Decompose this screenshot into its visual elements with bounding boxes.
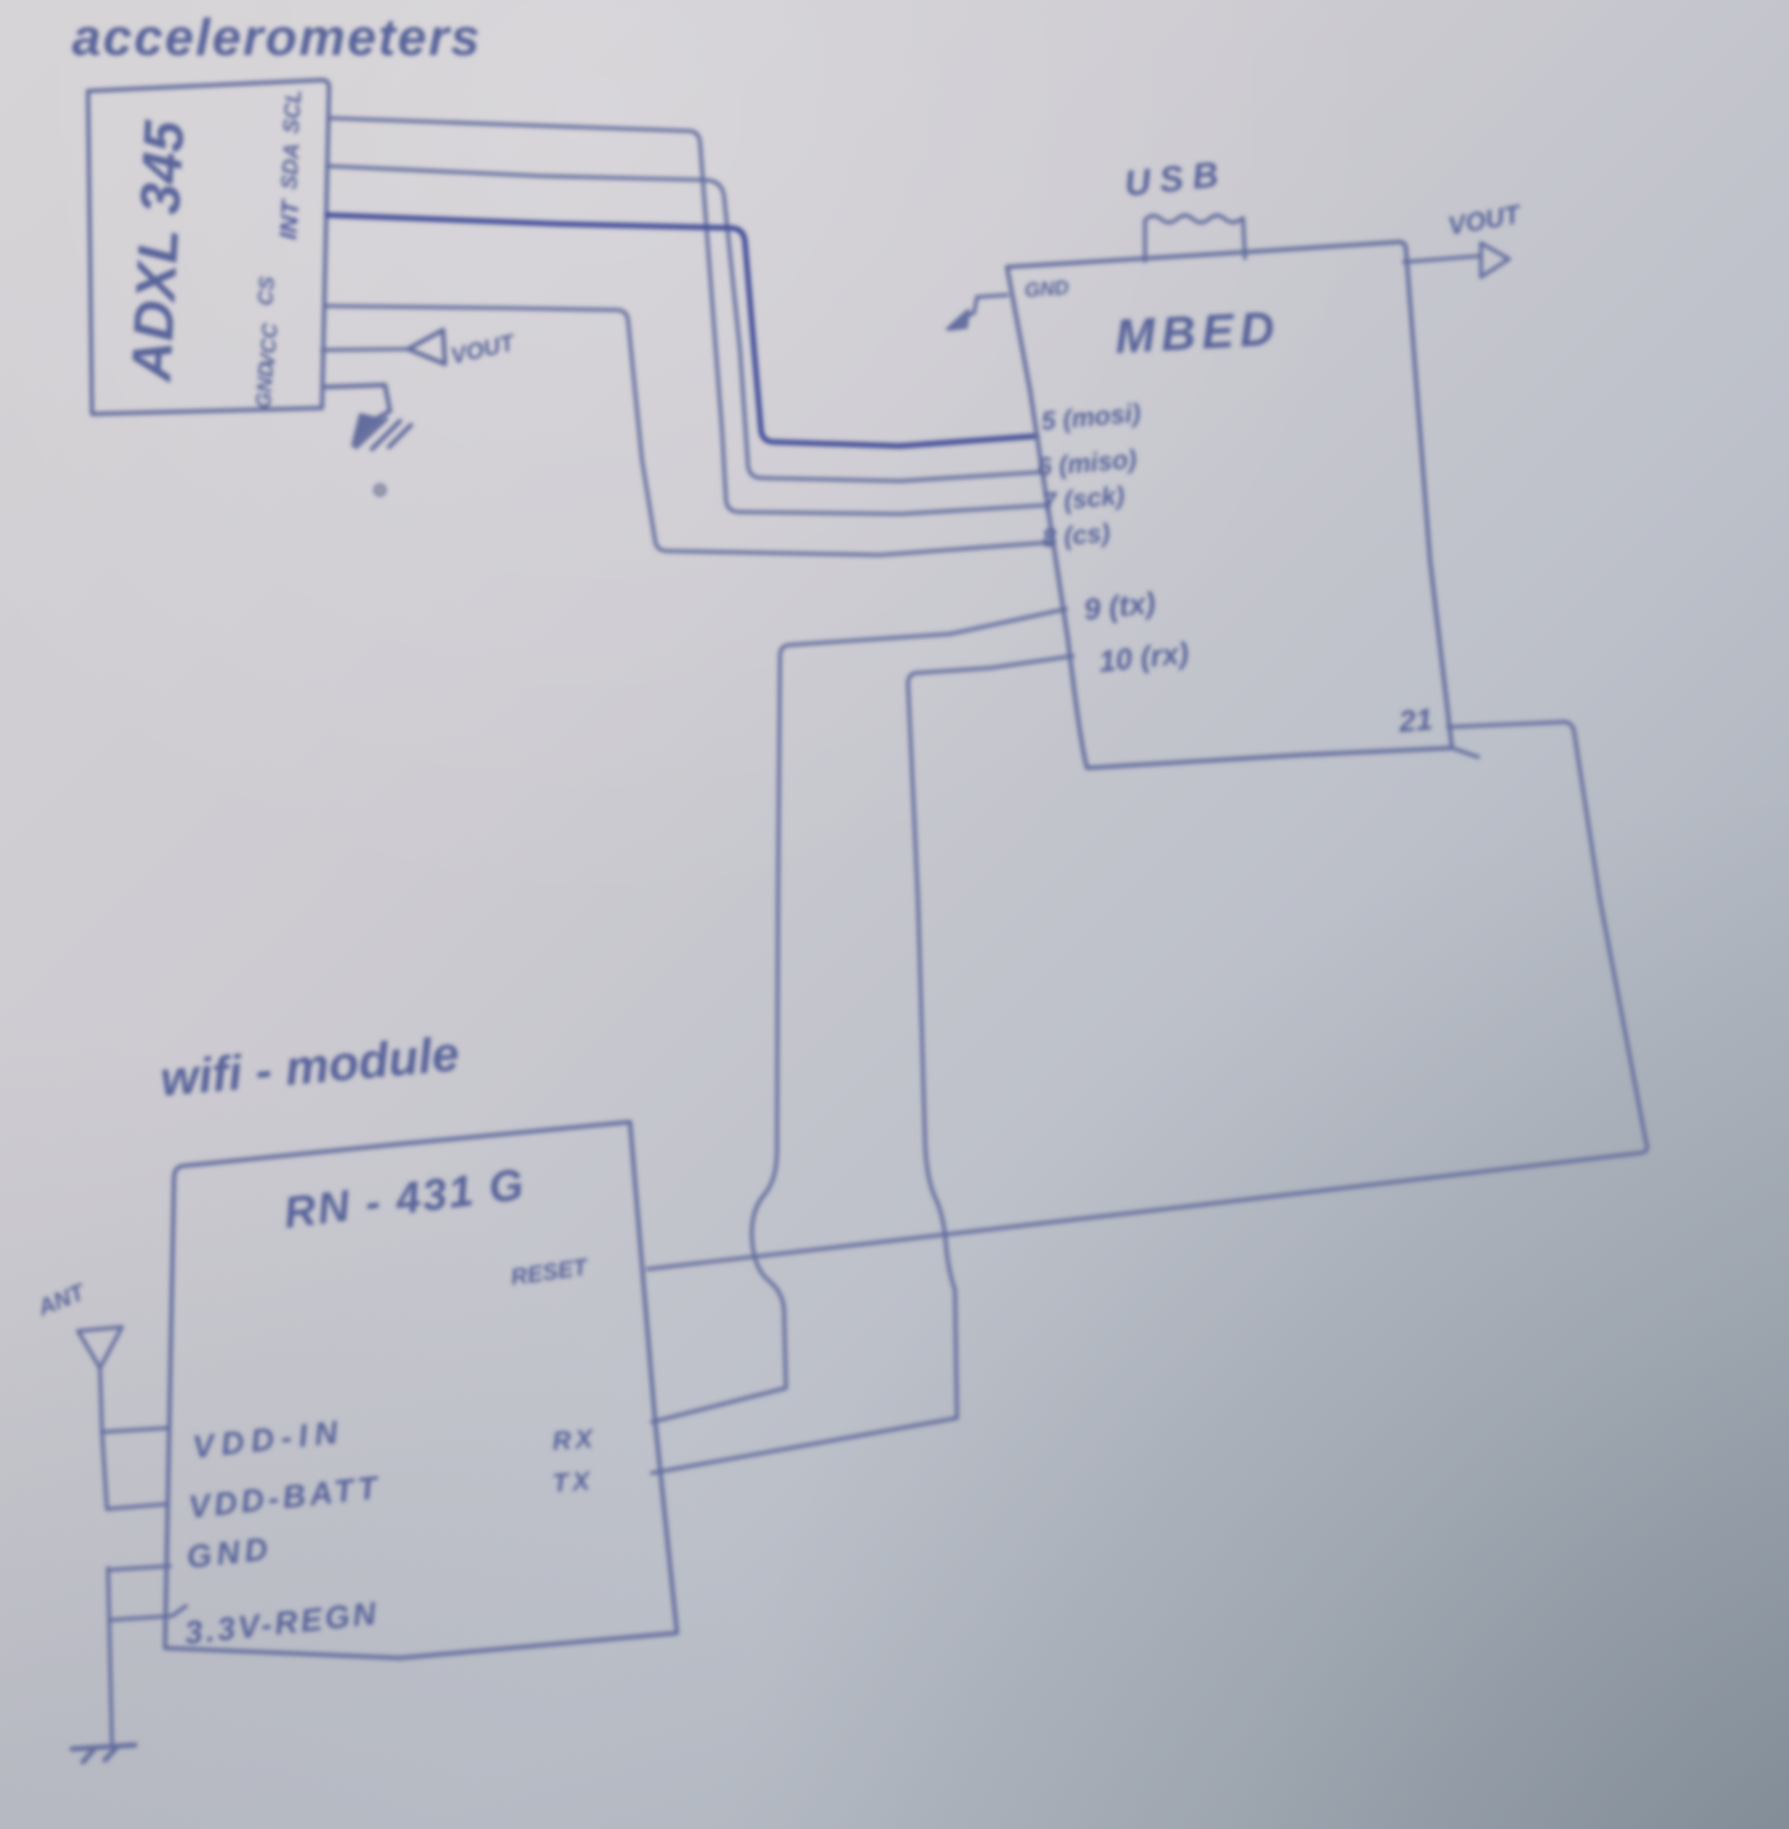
svg-text:accelerometers: accelerometers: [72, 9, 482, 67]
VOUT arrowhead (accel): [408, 330, 445, 364]
ground blob (accel): [352, 414, 381, 446]
svg-text:RX: RX: [551, 1423, 597, 1456]
antenna stub to VDD-IN: [102, 1428, 168, 1432]
svg-text:INT: INT: [275, 198, 305, 241]
svg-text:SCL: SCL: [278, 89, 306, 135]
wire SDA from accel to mbed pin6 (miso): [327, 166, 1043, 481]
svg-text:TX: TX: [551, 1465, 594, 1498]
wifi module box U3 RN-431G: [165, 1122, 677, 1658]
wire mbed pin21 to wifi RESET: [648, 722, 1647, 1269]
svg-text:GND: GND: [1024, 277, 1070, 302]
mbed box U2: [1007, 242, 1452, 768]
VOUT wire (mbed top-right): [1404, 256, 1480, 262]
wire VCC to VOUT arrow (accel): [322, 349, 408, 350]
handwritten labels: [33, 9, 1524, 1651]
svg-text:8 (cs): 8 (cs): [1041, 517, 1111, 553]
svg-text:SDA: SDA: [276, 142, 304, 190]
accelerometer box U1 ADXL345: [88, 80, 329, 414]
antenna symbol: [78, 1327, 122, 1509]
antenna stub to VDD-BATT: [107, 1504, 168, 1509]
ground symbol (accel) hatched: [356, 419, 411, 449]
stub ground rail to 3.3V-REG pin: [110, 1606, 186, 1620]
svg-text:CS: CS: [254, 276, 279, 307]
mbed bottom edge overshoot: [1452, 748, 1478, 757]
stray dot: [375, 485, 385, 495]
wire GND stub (accel): [325, 385, 390, 420]
stub ground rail to GND pin: [108, 1566, 170, 1570]
GND stub arrow (mbed top-left): [962, 295, 1007, 318]
svg-text:GND: GND: [252, 361, 278, 409]
svg-text:MBED: MBED: [1114, 302, 1282, 364]
svg-text:VCC: VCC: [256, 322, 282, 369]
ground symbol (wifi): [72, 1745, 135, 1762]
wire mbed pin9 tx down to wifi RX: [652, 609, 1066, 1422]
ground rail wire (wifi): [108, 1568, 112, 1745]
VOUT arrowhead (mbed): [1481, 243, 1509, 277]
wire SCL from accel to mbed pin7 (sck): [328, 118, 1049, 514]
svg-text:21: 21: [1397, 703, 1434, 739]
wire INT from accel to mbed pin5 (mosi): [327, 215, 1037, 446]
wire CS from accel to mbed pin8 (cs): [327, 306, 1054, 555]
USB connector notch on mbed: [1145, 216, 1245, 262]
wire mbed pin10 rx down to wifi TX: [652, 656, 1073, 1473]
GND arrowhead (mbed): [948, 311, 968, 329]
